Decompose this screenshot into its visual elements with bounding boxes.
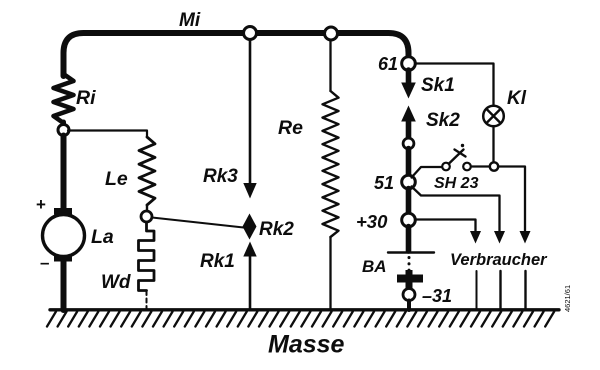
svg-text:+: + [36,195,46,214]
svg-text:Rk2: Rk2 [259,219,294,240]
svg-text:Wd: Wd [101,272,131,293]
wire top bus Mi [64,33,409,76]
wire load return left [476,271,478,310]
battery BA short thick plate [397,270,423,289]
node (terminal between Sk2 and 51) [403,138,414,149]
wire 61 to lamp Kl [415,64,494,107]
wire Wd to ground (dashed) [146,291,148,310]
switch contact (left) [442,163,450,171]
load arrow (+30 feed) [470,231,481,244]
wire lamp to junction [492,126,494,163]
load arrow (switched feed) [520,231,531,244]
wire to 51 [406,149,412,177]
wire switch to junction [471,165,490,167]
wire -31 to ground [407,301,411,311]
wire 51 to +30 [406,189,412,215]
svg-text:Ri: Ri [76,87,96,109]
svg-text:4621/61: 4621/61 [563,285,572,312]
switch contact (right) [463,163,471,171]
wire 51 to middle load [412,187,500,232]
node on bus (Re column) [325,27,338,40]
wire load return right [524,271,526,310]
wire 51 to switch [412,167,443,178]
wire load return middle [499,271,501,310]
svg-text:La: La [91,226,114,248]
svg-text:BA: BA [362,257,387,276]
svg-text:51: 51 [374,173,394,193]
battery BA dotted link [408,258,411,274]
inductor Le [139,137,155,205]
svg-text:Sk2: Sk2 [426,110,460,131]
wiper arrow Rk1 [243,242,256,311]
svg-text:–31: –31 [422,286,452,306]
battery BA long plate [388,251,434,253]
potentiometer tap Rk2 (diamond) [243,214,257,240]
svg-text:Masse: Masse [268,331,345,359]
wire junction to right load [498,167,525,232]
generator La terminal + block [54,208,72,215]
winding Wd [139,222,155,291]
resistor Ri [54,74,74,123]
switch contact arrow Sk2 [401,106,416,140]
wire node to Rk2 tap (diagonal) [152,218,244,228]
node (lamp / switch / load junction) [490,162,498,170]
wire node to La [61,136,67,210]
wire bus to Re [329,40,331,91]
wire node to Le [68,131,147,138]
svg-text:Le: Le [105,168,128,190]
wire +30 to left load [415,220,476,232]
node 61 [402,57,416,71]
wire Re to ground [329,237,331,310]
node (Ri / La / Le junction) [58,125,69,136]
switch lever SH 23 [449,144,466,164]
svg-text:Mi: Mi [179,10,201,31]
svg-text:Re: Re [278,117,303,139]
svg-text:SH 23: SH 23 [434,175,479,192]
svg-text:Kl: Kl [507,88,527,109]
node -31 [403,289,415,301]
svg-text:Verbraucher: Verbraucher [450,251,548,269]
generator La [43,215,85,257]
node +30 [402,213,416,227]
wiper arrow Rk3 [243,40,256,199]
svg-text:+30: +30 [356,211,388,232]
svg-text:61: 61 [378,54,398,74]
load arrow (terminal 51 feed) [494,231,505,244]
wire Ri to node [61,122,66,125]
wire La to ground [61,260,67,310]
svg-text:Rk1: Rk1 [200,251,235,272]
node (Le / Wd junction) [141,211,152,222]
lamp Kl [483,106,504,127]
wire +30 to battery [406,227,412,252]
svg-text:Rk3: Rk3 [203,166,238,187]
generator La terminal - block [54,255,72,262]
switch contact arrow Sk1 [401,70,416,99]
svg-text:Sk1: Sk1 [421,75,455,96]
wire Le to node [146,205,148,210]
node on bus (Rk column) [244,27,257,40]
resistor Re [323,91,339,237]
ground plane Masse [47,310,559,327]
svg-text:–: – [40,253,49,272]
node 51 [402,175,416,189]
